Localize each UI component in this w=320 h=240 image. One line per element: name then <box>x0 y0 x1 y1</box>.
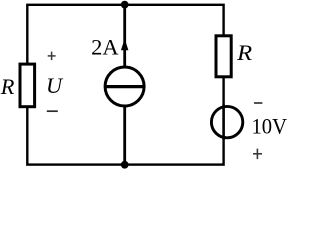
svg-text:2A: 2A <box>91 35 119 60</box>
svg-text:10V: 10V <box>252 114 288 139</box>
svg-text:R: R <box>236 40 253 65</box>
svg-text:U: U <box>46 73 64 98</box>
svg-text:R: R <box>0 74 15 99</box>
